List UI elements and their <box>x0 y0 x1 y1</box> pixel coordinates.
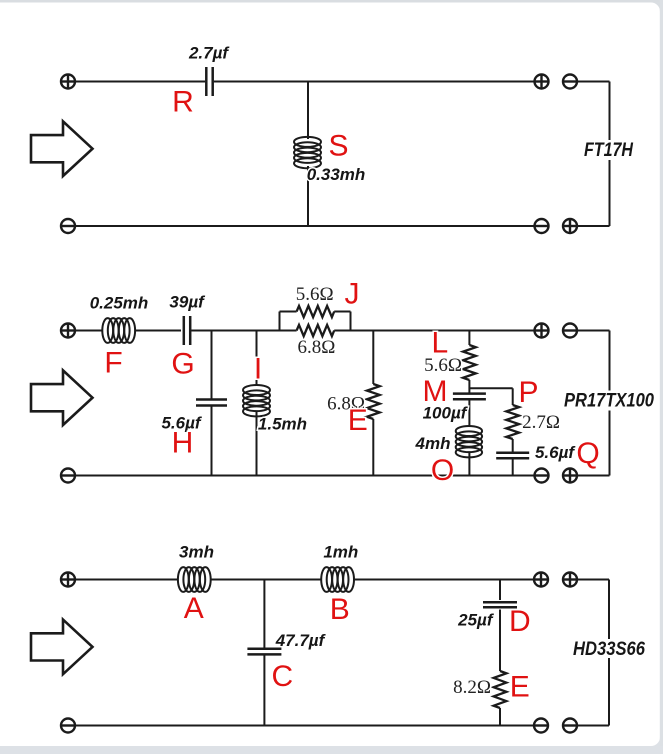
svg-text:G: G <box>171 348 194 381</box>
svg-text:4mh: 4mh <box>415 434 451 453</box>
svg-text:100µf: 100µf <box>423 404 469 423</box>
svg-text:F: F <box>104 347 122 380</box>
svg-text:39µf: 39µf <box>169 293 206 312</box>
svg-text:I: I <box>254 353 262 386</box>
svg-text:3mh: 3mh <box>179 543 214 562</box>
svg-text:5.6Ω: 5.6Ω <box>296 284 334 305</box>
svg-text:R: R <box>172 86 194 119</box>
svg-text:A: A <box>184 592 204 625</box>
svg-text:5.6Ω: 5.6Ω <box>424 355 462 376</box>
svg-text:25µf: 25µf <box>457 611 495 630</box>
svg-text:FT17H: FT17H <box>584 140 634 161</box>
svg-text:E: E <box>348 404 368 437</box>
svg-text:2.7µf: 2.7µf <box>188 44 230 63</box>
svg-text:HD33S66: HD33S66 <box>573 639 645 660</box>
svg-text:P: P <box>518 376 538 409</box>
svg-text:Q: Q <box>576 437 599 470</box>
svg-text:D: D <box>509 605 531 638</box>
svg-text:0.33mh: 0.33mh <box>307 165 366 184</box>
svg-text:1mh: 1mh <box>323 543 358 562</box>
svg-text:H: H <box>172 427 194 460</box>
svg-text:0.25mh: 0.25mh <box>90 294 149 313</box>
svg-text:E: E <box>510 671 530 704</box>
svg-text:2.7Ω: 2.7Ω <box>522 412 560 433</box>
svg-text:6.8Ω: 6.8Ω <box>297 337 335 358</box>
svg-text:47.7µf: 47.7µf <box>275 631 327 650</box>
svg-text:B: B <box>330 593 350 626</box>
svg-text:5.6µf: 5.6µf <box>535 443 576 462</box>
svg-text:J: J <box>345 278 360 311</box>
svg-text:O: O <box>431 454 454 487</box>
svg-text:S: S <box>328 130 348 163</box>
svg-text:8.2Ω: 8.2Ω <box>453 677 491 698</box>
svg-text:1.5mh: 1.5mh <box>258 415 307 434</box>
svg-text:C: C <box>271 660 293 693</box>
svg-text:PR17TX100: PR17TX100 <box>564 391 654 412</box>
